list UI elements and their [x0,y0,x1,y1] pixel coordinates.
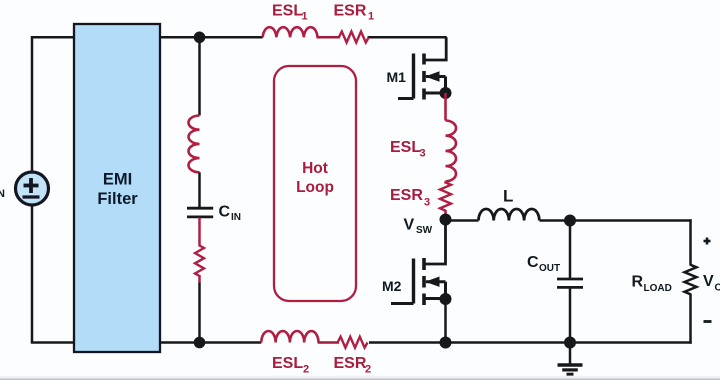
label ESL3 [390,139,426,160]
svg-text:ESR: ESR [390,187,423,204]
svg-text:EMI: EMI [103,171,132,189]
node VSW dot [440,214,452,226]
wire M2 source to bottom rail [444,299,447,343]
label RLOAD [632,274,672,295]
label L [503,187,513,206]
wire coil to cap [198,172,201,207]
capacitor COUT [557,279,583,287]
transistor M1 drain corner wire [424,37,446,60]
wire COUT branch bottom [569,288,572,342]
resistor ESR3 [440,183,451,211]
node dot top of CIN branch [194,32,206,44]
node dot M2 source [440,293,452,305]
ground [558,343,583,375]
svg-text:LOAD: LOAD [644,283,672,294]
bottom edge shading [0,376,720,380]
resistor parasitic in CIN branch [195,246,204,277]
wire top rail [31,36,447,39]
inductor ESL1 [263,27,318,37]
svg-text:2: 2 [303,364,309,376]
svg-text:IN: IN [231,212,241,223]
capacitor CIN [187,208,213,217]
EMI filter block [74,24,160,352]
inductor parasitic in CIN branch [189,116,200,173]
svg-text:Hot: Hot [302,160,328,177]
inductor L [479,209,540,221]
svg-text:N: N [0,188,5,200]
svg-text:C: C [527,254,539,271]
svg-text:Loop: Loop [296,179,334,196]
label M1 [387,69,407,85]
svg-text:3: 3 [420,148,426,160]
svg-text:1: 1 [368,11,374,23]
wire RLOAD branch top [689,219,692,265]
resistor RLOAD [685,265,697,294]
resistor ESR2 [338,337,368,348]
label ESL1 [272,3,308,23]
wire ESL3 to ESR3 [444,181,447,183]
label ESR2 [334,355,372,376]
svg-text:M2: M2 [382,278,402,294]
wire CIN branch top [198,37,201,115]
transistor M1 [398,54,446,100]
label VOUT plus [704,238,711,245]
svg-text:1: 1 [302,11,308,23]
svg-text:L: L [503,187,513,206]
label VIN (clipped at left edge) [0,188,5,200]
label ESL2 [272,355,309,376]
voltage source VIN [16,172,49,205]
label M2 [382,278,402,294]
label VSW [404,217,433,237]
wire M1 source to ESL3 [444,93,447,121]
inductor ESL3 [446,121,457,182]
wire VSW rail [446,219,692,222]
svg-text:Filter: Filter [97,190,138,208]
svg-text:V: V [404,217,415,234]
label ESR1 [334,3,375,23]
transistor M2 [391,258,446,305]
svg-text:ESR: ESR [334,355,367,372]
label VOUT [703,273,720,294]
svg-text:R: R [632,274,644,291]
inductor ESL2 [261,331,318,343]
label COUT [527,254,560,274]
resistor ESR1 [339,32,369,43]
node dot COUT bottom [564,337,576,349]
wire bottom rail [31,341,692,344]
label ESR3 [390,187,430,209]
svg-text:OUT: OUT [715,283,720,294]
wire left vertical from Vin loop [31,37,34,342]
svg-text:V: V [703,273,714,290]
label VOUT minus [704,320,712,323]
svg-text:M1: M1 [387,69,407,85]
wire cap to resistor [198,218,201,247]
svg-text:2: 2 [365,364,371,376]
svg-text:SW: SW [416,225,433,236]
svg-text:C: C [219,203,231,220]
svg-text:3: 3 [424,197,430,209]
node dot bottom of CIN branch [194,337,206,349]
wire CIN branch bottom [198,275,201,343]
node dot M2 bottom rail [440,337,452,349]
svg-text:ESR: ESR [334,3,367,20]
wire ESR3 to VSW node [444,210,447,220]
hot loop box [274,66,356,301]
svg-text:ESL: ESL [272,3,303,20]
node dot COUT top [564,215,576,227]
node dot M1 source [440,87,452,99]
wire COUT branch top [569,221,572,279]
wire RLOAD branch bottom [689,294,692,344]
svg-text:ESL: ESL [390,139,421,156]
svg-text:OUT: OUT [539,263,560,274]
svg-text:ESL: ESL [272,355,303,372]
label CIN [219,203,242,223]
transistor M2 drain corner wire [424,220,446,265]
